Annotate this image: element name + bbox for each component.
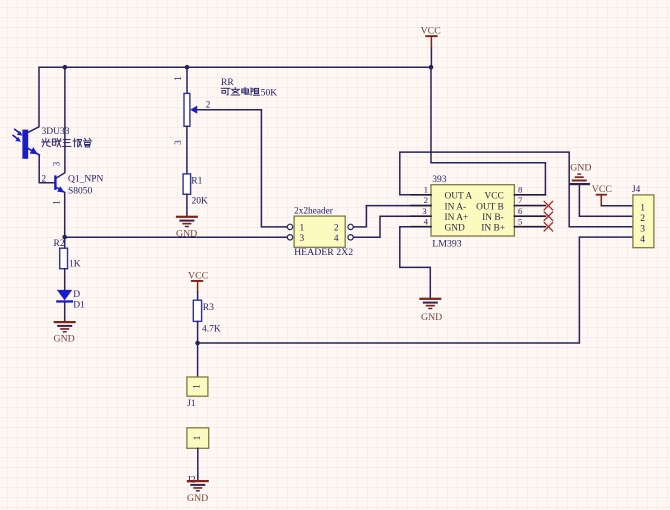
- svg-text:J1: J1: [187, 399, 196, 409]
- svg-text:2: 2: [424, 195, 428, 205]
- hanzi san: [63, 139, 70, 141]
- hanzi min: [52, 139, 55, 145]
- junction dot at collector rail: [63, 65, 68, 70]
- svg-text:1: 1: [299, 224, 304, 234]
- header pin 4 circle: [348, 235, 353, 240]
- svg-text:4.7K: 4.7K: [202, 324, 221, 334]
- label guangmin sanjiguan (drawn hanzi): [42, 138, 92, 147]
- junction dot R3 node: [195, 341, 200, 346]
- svg-text:2x2header: 2x2header: [294, 206, 334, 216]
- hanzi guang: [45, 139, 47, 142]
- junction dot RR top: [185, 65, 190, 70]
- no-connect X pin7: [544, 201, 552, 209]
- connector header 2x2 body: [294, 216, 345, 247]
- wire LM393 pin4 GND down: [400, 227, 431, 298]
- header pin 3 circle: [287, 235, 292, 240]
- transistor Q1 emitter arrow: [57, 186, 65, 192]
- phototransistor emitter arrow: [28, 147, 39, 155]
- power VCC above R3: [191, 280, 203, 292]
- wire LM393 pin1 OUT A loop to J4 pin 3: [400, 152, 633, 227]
- wire Q1 emitter down to junction: [64, 193, 66, 249]
- LM393 pin 5 stub: [514, 226, 545, 228]
- label kebian dianzu 50K (drawn hanzi + 50K): [221, 87, 259, 95]
- potentiometer RR wiper arrow: [190, 106, 261, 114]
- no-connect X pin6: [544, 212, 552, 220]
- no-connect X pin5: [544, 223, 552, 231]
- junction dot VCC rail: [429, 65, 434, 70]
- svg-text:D1: D1: [73, 300, 85, 310]
- svg-text:3: 3: [299, 234, 304, 244]
- connector J2 body: [187, 428, 209, 449]
- svg-text:1: 1: [424, 185, 428, 195]
- svg-text:3: 3: [422, 206, 427, 216]
- svg-text:1: 1: [52, 200, 62, 205]
- wire R2 to diode: [64, 269, 66, 290]
- wire diode to ground: [64, 303, 66, 322]
- ground symbol below D1: [54, 321, 76, 333]
- ground symbol right (flipped, to J4 pin2): [569, 173, 591, 185]
- wire J4 pin 4 down and across to R3 node: [198, 237, 633, 343]
- junction dot R2 node: [62, 235, 67, 240]
- svg-text:4: 4: [334, 234, 339, 244]
- phototransistor light arrow 2: [13, 136, 21, 142]
- transistor Q1 base bar: [54, 175, 56, 190]
- svg-text:1: 1: [193, 384, 203, 389]
- resistor R1 body: [183, 174, 191, 194]
- svg-text:Q1_NPN: Q1_NPN: [68, 175, 104, 185]
- svg-text:50K: 50K: [261, 89, 278, 99]
- wire VCC symbol down to rail junction: [430, 48, 432, 67]
- hanzi ke: [221, 87, 230, 89]
- svg-text:8: 8: [518, 185, 523, 195]
- op-amp U? LM393 body: [431, 185, 514, 236]
- svg-text:R2: R2: [54, 239, 65, 249]
- diode D1: [56, 290, 73, 303]
- header pin 2 circle: [348, 224, 353, 229]
- wire VCC down and over to LM393 pin 8: [431, 67, 545, 195]
- hanzi zu: [250, 88, 252, 95]
- svg-text:GND: GND: [570, 163, 591, 174]
- svg-text:4: 4: [640, 234, 645, 245]
- resistor R2 body: [60, 248, 68, 269]
- svg-text:1K: 1K: [69, 260, 81, 270]
- LM393 pin 4 stub: [411, 226, 431, 228]
- wire VCC right to J4 pin 1: [601, 205, 633, 207]
- svg-text:R1: R1: [191, 176, 202, 186]
- svg-text:2: 2: [206, 99, 211, 109]
- svg-text:GND: GND: [176, 228, 197, 239]
- hanzi dian: [242, 89, 249, 93]
- wire long horizontal to header pin 3: [65, 236, 288, 238]
- svg-text:2: 2: [42, 174, 47, 184]
- svg-text:1: 1: [173, 76, 183, 81]
- wire left vertical to phototransistor collector: [28, 67, 39, 132]
- svg-text:S8050: S8050: [68, 187, 93, 197]
- svg-text:2: 2: [334, 224, 339, 234]
- svg-text:GND: GND: [187, 493, 208, 504]
- svg-text:R3: R3: [203, 303, 214, 313]
- hanzi guan: [85, 138, 86, 139]
- potentiometer RR body: [184, 93, 190, 126]
- connector J4 body: [633, 195, 654, 248]
- ground symbol below R1: [176, 216, 198, 228]
- svg-text:HEADER 2X2: HEADER 2X2: [294, 247, 353, 258]
- connector J1 body: [187, 377, 208, 396]
- svg-text:4: 4: [424, 216, 429, 226]
- phototransistor light arrow 1: [15, 129, 23, 135]
- svg-text:J4: J4: [632, 185, 641, 195]
- phototransistor Q? 3DU33 body bar: [22, 130, 28, 159]
- svg-text:GND: GND: [445, 223, 466, 233]
- svg-text:5: 5: [518, 216, 523, 226]
- wire RR wiper to header pin 1: [261, 110, 287, 227]
- svg-text:OUT B: OUT B: [476, 202, 504, 212]
- wire phototransistor emitter down and to Q1 base: [39, 155, 54, 183]
- svg-text:VCC: VCC: [188, 270, 208, 281]
- svg-text:D: D: [73, 290, 80, 300]
- LM393 pin 2 stub: [411, 205, 431, 207]
- svg-text:GND: GND: [54, 334, 75, 345]
- hanzi ji: [74, 139, 76, 147]
- wire top horizontal VCC rail: [39, 66, 431, 68]
- svg-text:IN A+: IN A+: [445, 213, 469, 223]
- ground symbol below LM393: [419, 298, 441, 309]
- svg-text:IN B+: IN B+: [481, 223, 505, 233]
- wire J2 down to ground: [197, 448, 199, 480]
- svg-text:2: 2: [640, 213, 645, 224]
- svg-text:1: 1: [640, 203, 645, 214]
- LM393 pin 6 stub: [514, 215, 545, 217]
- wire right GND down to J4 pin 2: [579, 185, 633, 216]
- power VCC right symbol: [596, 194, 607, 206]
- hanzi bian: [234, 88, 236, 90]
- svg-text:VCC: VCC: [592, 184, 612, 195]
- wire rail to RR: [186, 67, 188, 93]
- LM393 pin 8 stub: [514, 194, 545, 196]
- LM393 pin 3 stub: [411, 215, 431, 217]
- svg-text:OUT A: OUT A: [445, 192, 473, 202]
- LM393 pin 1 stub: [411, 194, 431, 196]
- svg-text:VCC: VCC: [421, 26, 441, 37]
- svg-text:VCC: VCC: [485, 192, 504, 202]
- wire header pin4 up to LM393 pin3: [353, 216, 431, 237]
- power VCC top symbol: [425, 35, 437, 48]
- transistor Q1 collector: [57, 67, 65, 178]
- wire header pin2 up to LM393 pin2: [353, 206, 431, 227]
- svg-text:3: 3: [52, 161, 62, 166]
- svg-text:6: 6: [518, 206, 523, 216]
- svg-text:RR: RR: [221, 78, 234, 88]
- wire R3 down to J1: [197, 321, 199, 377]
- ground symbol below J2: [187, 480, 209, 492]
- wire RR to R1: [186, 126, 188, 174]
- wire R1 to ground: [186, 194, 188, 216]
- svg-text:IN A-: IN A-: [445, 202, 467, 212]
- svg-text:1: 1: [193, 435, 203, 440]
- wire VCC to R3: [197, 292, 199, 300]
- svg-text:7: 7: [518, 195, 523, 205]
- svg-text:3: 3: [173, 140, 183, 145]
- svg-text:3: 3: [640, 224, 645, 235]
- svg-text:IN B-: IN B-: [482, 213, 504, 223]
- LM393 pin 7 stub: [514, 205, 545, 207]
- svg-text:20K: 20K: [192, 197, 209, 207]
- resistor R3 body: [193, 300, 201, 321]
- header pin 1 circle: [287, 224, 292, 229]
- svg-text:GND: GND: [421, 312, 442, 323]
- svg-text:LM393: LM393: [432, 238, 461, 249]
- svg-text:393: 393: [432, 175, 447, 185]
